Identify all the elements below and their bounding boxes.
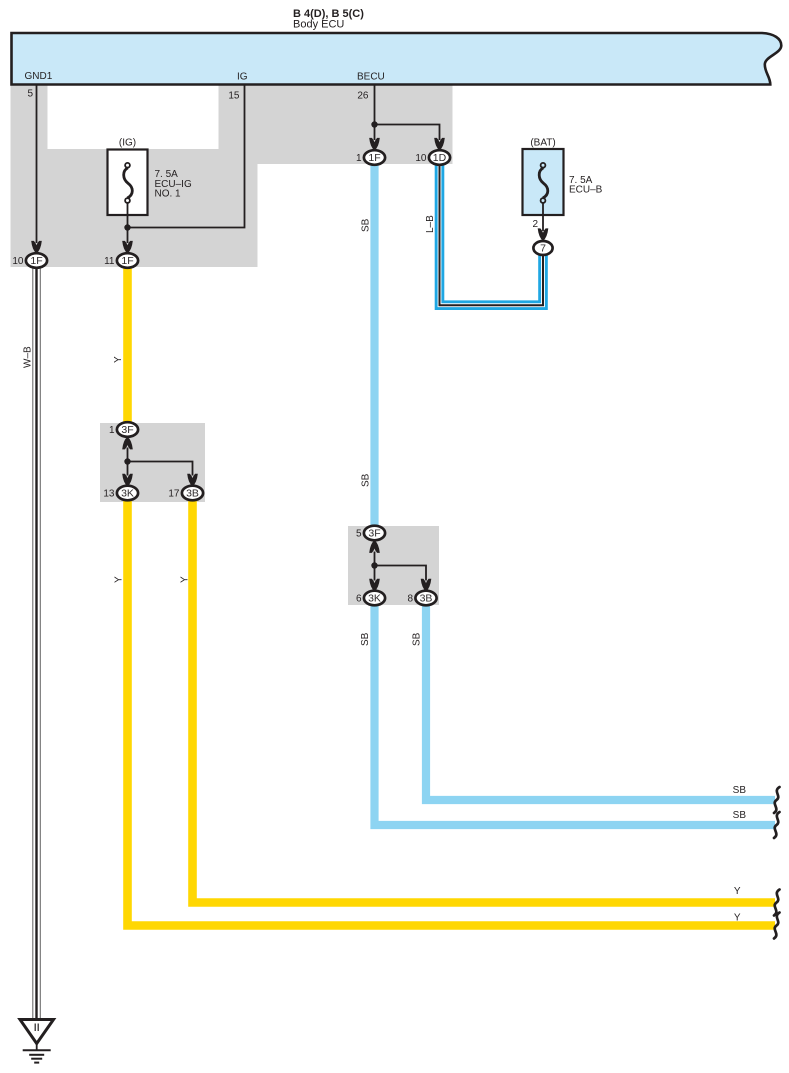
svg-text:3F: 3F	[368, 528, 380, 540]
svg-text:Body ECU: Body ECU	[293, 19, 344, 31]
svg-text:3K: 3K	[121, 488, 134, 500]
svg-text:8: 8	[407, 594, 413, 605]
svg-text:ECU–B: ECU–B	[569, 185, 603, 196]
svg-text:SB: SB	[733, 785, 747, 796]
svg-text:Y: Y	[114, 576, 125, 583]
svg-text:1: 1	[356, 153, 362, 164]
svg-text:IG: IG	[237, 72, 248, 83]
svg-text:3B: 3B	[420, 593, 433, 605]
svg-text:Y: Y	[734, 913, 741, 924]
svg-text:2: 2	[532, 219, 538, 230]
svg-text:Y: Y	[734, 886, 741, 897]
svg-text:26: 26	[357, 91, 369, 102]
svg-text:6: 6	[356, 594, 362, 605]
svg-text:1F: 1F	[121, 255, 133, 267]
svg-text:(BAT): (BAT)	[530, 138, 555, 149]
svg-text:SB: SB	[733, 810, 747, 821]
svg-text:5: 5	[356, 529, 362, 540]
svg-text:11: 11	[104, 256, 115, 267]
svg-text:3B: 3B	[186, 488, 199, 500]
svg-text:3F: 3F	[121, 424, 133, 436]
svg-text:10: 10	[12, 256, 24, 267]
svg-text:NO. 1: NO. 1	[155, 189, 182, 200]
svg-text:Y: Y	[113, 356, 124, 363]
svg-text:SB: SB	[360, 632, 371, 646]
svg-text:SB: SB	[361, 218, 372, 232]
svg-text:SB: SB	[361, 473, 372, 487]
svg-text:(IG): (IG)	[119, 138, 136, 149]
svg-text:7: 7	[540, 243, 546, 255]
svg-text:BECU: BECU	[357, 72, 385, 83]
svg-text:L–B: L–B	[425, 215, 436, 233]
svg-text:SB: SB	[412, 632, 423, 646]
svg-text:10: 10	[415, 153, 427, 164]
svg-text:1D: 1D	[433, 152, 447, 164]
svg-text:17: 17	[168, 489, 180, 500]
svg-text:1F: 1F	[368, 152, 380, 164]
svg-text:1: 1	[109, 425, 115, 436]
svg-text:13: 13	[103, 489, 115, 500]
svg-text:5: 5	[27, 89, 33, 100]
svg-text:3K: 3K	[368, 593, 381, 605]
svg-text:15: 15	[228, 91, 240, 102]
svg-text:GND1: GND1	[25, 71, 53, 82]
svg-text:Y: Y	[180, 576, 191, 583]
svg-text:1F: 1F	[30, 255, 42, 267]
svg-text:W–B: W–B	[23, 346, 34, 368]
